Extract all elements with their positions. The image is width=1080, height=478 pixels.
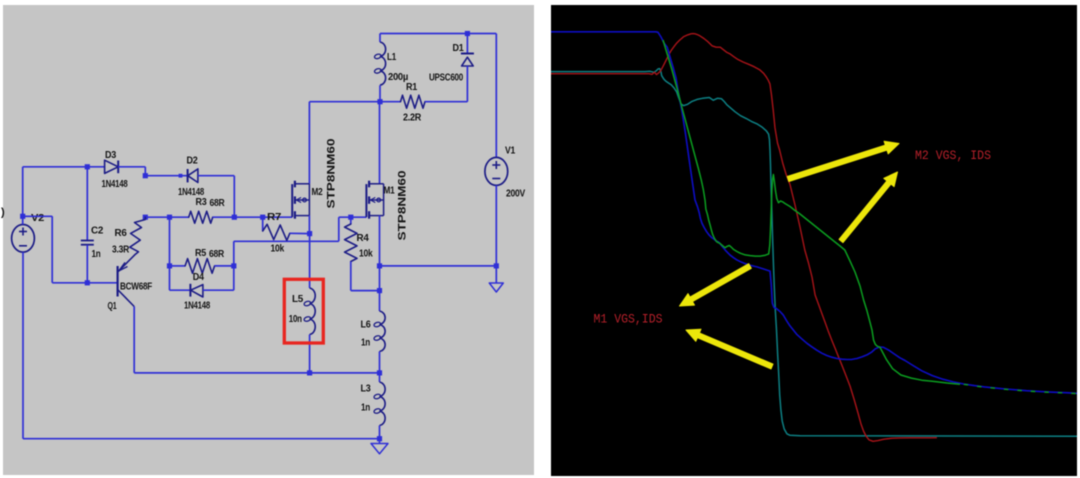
wire V2 plus branch v — [51, 216, 53, 282]
svg-text:STP8NM60: STP8NM60 — [397, 171, 409, 241]
wire M2 source to L5 — [309, 234, 311, 288]
wire R5 right v — [233, 241, 235, 290]
node R3 right junction — [232, 215, 237, 220]
svg-text:R3: R3 — [196, 196, 207, 208]
wire M1 source lead — [379, 216, 381, 291]
svg-text:1N4148: 1N4148 — [184, 300, 210, 312]
annotation arrow to M1 text upper — [690, 264, 751, 302]
ground symbol bottom — [379, 439, 381, 444]
resistor R4 — [350, 217, 352, 224]
node R7 top junction — [260, 215, 265, 220]
diode D3 — [105, 160, 119, 173]
svg-text:3.3R: 3.3R — [112, 244, 130, 256]
inductor L1 — [379, 34, 381, 43]
svg-text:1n: 1n — [92, 248, 101, 260]
svg-text:R7: R7 — [267, 211, 281, 223]
wire top rail — [380, 33, 496, 35]
inductor L6 — [379, 291, 381, 311]
svg-text:D2: D2 — [187, 155, 198, 167]
svg-text:10k: 10k — [359, 248, 373, 260]
waveform blue M1 IDS — [551, 32, 1077, 394]
svg-text:C2: C2 — [91, 225, 103, 237]
annotation arrow to M2 text lower — [839, 181, 891, 243]
svg-text:D3: D3 — [105, 149, 116, 161]
resistor R5 — [170, 265, 186, 267]
mosfet M2 — [291, 184, 293, 217]
node M2 source junction — [307, 231, 312, 236]
wire gate M1 up — [338, 217, 340, 241]
mosfet M1 — [365, 184, 367, 217]
resistor R7 — [262, 217, 264, 231]
waveform red M2 VGS — [551, 34, 937, 442]
wire M2 source lead — [308, 216, 310, 234]
svg-text:V2: V2 — [31, 212, 44, 224]
svg-text:M1 VGS,IDS: M1 VGS,IDS — [594, 313, 663, 327]
svg-text:L3: L3 — [361, 383, 371, 395]
node C2 bottom junction — [85, 280, 90, 285]
voltage source V1 — [485, 157, 508, 185]
inductor L3 — [379, 373, 381, 382]
svg-text:UPSC600: UPSC600 — [429, 72, 463, 84]
svg-text:R5: R5 — [195, 247, 206, 259]
wire V2 top lead — [22, 167, 24, 225]
scope panel background — [551, 5, 1077, 476]
node R5 branch junction — [167, 215, 172, 220]
wire R5 branch v — [169, 217, 171, 290]
svg-text:68R: 68R — [209, 248, 225, 260]
transistor Q1 — [116, 266, 118, 297]
svg-text:M2 VGS, IDS: M2 VGS, IDS — [915, 149, 991, 163]
wire V1 bottom lead — [495, 185, 497, 266]
node R4 bottom junction — [377, 288, 382, 293]
svg-text:M1: M1 — [384, 185, 395, 197]
wire V2 bottom lead — [22, 252, 24, 439]
node D1 top junction — [465, 31, 470, 36]
diode D4 — [170, 289, 191, 291]
svg-text:STP8NM60: STP8NM60 — [326, 139, 338, 209]
node D2 row left junction — [143, 173, 148, 178]
svg-text:1n: 1n — [361, 402, 370, 414]
svg-text:10k: 10k — [271, 242, 285, 254]
highlight box L5 — [284, 279, 323, 343]
waveform green M2 IDS — [663, 40, 960, 384]
svg-text:D4: D4 — [193, 271, 204, 283]
wire mid ground row — [380, 265, 497, 267]
waveform green dashes on blue tail — [964, 384, 1077, 393]
svg-text:D1: D1 — [453, 42, 464, 54]
wire bottom rail — [23, 438, 380, 440]
wire gate M1 long — [234, 240, 339, 242]
svg-text:L5: L5 — [292, 293, 303, 305]
svg-text:R6: R6 — [115, 227, 127, 239]
node R4 top junction — [348, 215, 353, 220]
node L1/R1/M-drain junction — [377, 99, 382, 104]
resistor R6 — [130, 217, 146, 255]
resistor R3 — [189, 211, 213, 223]
node R5 right junction — [231, 263, 236, 268]
diode D1 — [466, 34, 468, 54]
wire collector row — [134, 372, 379, 374]
node source common junction — [377, 370, 382, 375]
svg-text:10n: 10n — [289, 313, 302, 325]
wire M1 drain lead — [379, 102, 381, 184]
voltage source V2 — [12, 225, 35, 253]
node D2 anode stub — [179, 174, 183, 178]
schematic panel background — [3, 5, 534, 475]
svg-text:V1: V1 — [505, 145, 515, 157]
node bottom rail junction — [377, 436, 382, 441]
svg-text:68R: 68R — [210, 197, 226, 209]
wire D3 corner down — [144, 167, 146, 176]
wire top-left net — [23, 166, 105, 168]
wire drain rail to M2 — [309, 101, 380, 103]
annotation arrow to M2 text upper — [787, 145, 887, 181]
node L5 bottom junction — [307, 370, 312, 375]
node R5 left junction — [167, 263, 172, 268]
ground symbol right — [495, 266, 497, 283]
wire V1 top lead — [495, 34, 497, 158]
svg-text:L6: L6 — [361, 319, 371, 331]
node M1 source junction — [377, 263, 382, 268]
wire base row — [52, 282, 117, 284]
node mid-ground junction — [494, 263, 499, 268]
svg-text:R4: R4 — [357, 232, 369, 244]
svg-text:2.2R: 2.2R — [403, 112, 422, 124]
wire D2 right corner down — [233, 176, 235, 218]
svg-text:1N4148: 1N4148 — [102, 178, 128, 190]
waveform teal M1 VGS — [551, 69, 1077, 437]
resistor R1 — [380, 101, 401, 103]
svg-text:R1: R1 — [406, 81, 417, 93]
svg-text:BCW68F: BCW68F — [120, 281, 153, 293]
wire D2 row left — [145, 175, 187, 177]
diode D2 — [187, 169, 189, 182]
svg-text:1n: 1n — [361, 337, 370, 349]
svg-text:Q1: Q1 — [108, 300, 117, 312]
node V2 plus junction — [20, 214, 25, 219]
inductor L5 — [310, 288, 316, 335]
node C2 top junction — [85, 164, 90, 169]
wire M2 drain lead — [308, 102, 310, 184]
annotation arrow to M1 text lower — [697, 333, 773, 369]
capacitor C2 — [86, 167, 88, 240]
svg-text:L1: L1 — [387, 51, 396, 63]
wire gate row M2 — [234, 216, 292, 218]
wire V2 plus branch h — [23, 215, 53, 217]
node R3 row left junction — [143, 215, 148, 220]
wire gate row M1 — [339, 216, 367, 218]
svg-text:M2: M2 — [312, 186, 323, 198]
svg-text:200V: 200V — [506, 188, 525, 200]
wire Q1 collector down — [133, 307, 135, 373]
wire R3 row left — [145, 216, 188, 218]
